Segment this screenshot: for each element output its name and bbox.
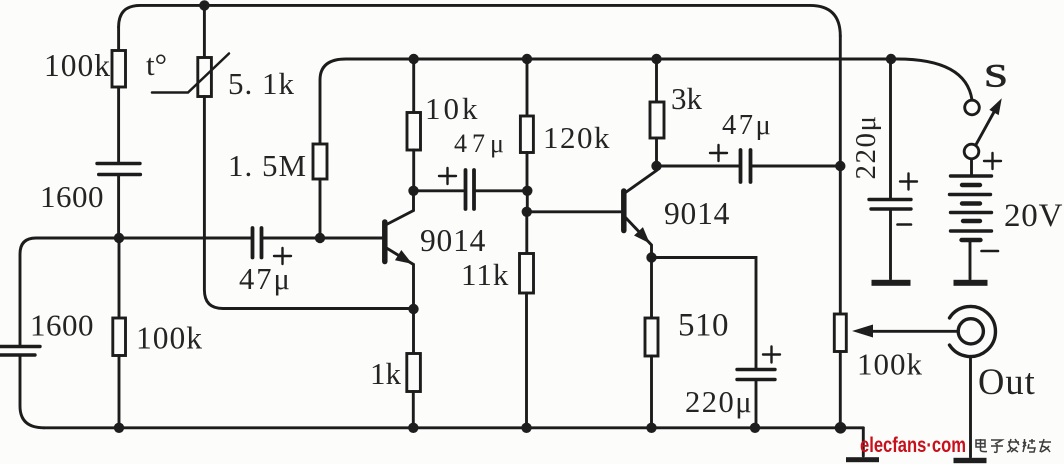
wire: R9 bottom to bottom rail xyxy=(650,356,653,428)
svg-text:elecfans·com: elecfans·com xyxy=(860,433,966,457)
node: bottom rail / 1k xyxy=(408,423,418,433)
wire: supply rail xyxy=(346,59,972,100)
wire: R7 bottom to bottom rail xyxy=(412,392,415,428)
capacitor C6 47u (output coupling) xyxy=(741,150,751,182)
wire: C4 to 120k node xyxy=(476,189,527,192)
svg-text:47μ: 47μ xyxy=(239,262,292,296)
thermistor Rt 5.1k xyxy=(152,5,229,96)
wire: 1.5M top lead to supply rail xyxy=(320,59,346,144)
switch S terminal (upper) xyxy=(965,100,980,115)
wire: output line Q2 collector to right vertical xyxy=(657,165,740,168)
node: bottom rail / R2 xyxy=(114,423,124,433)
wire: thermistor bottom down and over to Q1 emitter node xyxy=(204,97,413,309)
resistor R6 11k xyxy=(520,254,534,294)
wire: 120k top lead xyxy=(526,59,529,116)
wire: emitter bypass branch over and down xyxy=(652,258,757,369)
wire: 11k top lead xyxy=(525,212,528,254)
wire: C2 bottom to bottom rail xyxy=(20,356,44,428)
wire: C3 to Q1 base xyxy=(263,237,382,240)
wire: Out ground lead xyxy=(969,356,972,457)
wire: base line to Q2 xyxy=(527,210,622,213)
svg-text:510: 510 xyxy=(678,308,729,344)
node: bottom rail / C5 xyxy=(750,423,760,433)
svg-text:10k: 10k xyxy=(425,91,481,126)
node: supply/220u junction xyxy=(886,54,896,64)
svg-text:t°: t° xyxy=(146,47,167,82)
wire: switch to battery xyxy=(970,159,973,175)
wire: R3 bottom to node B xyxy=(319,179,322,233)
svg-text:100k: 100k xyxy=(44,48,111,83)
wire: R5 bottom to junction xyxy=(526,153,529,191)
label plus (C5) xyxy=(763,347,780,363)
resistor R2 100k (lower left) xyxy=(113,318,126,356)
wire: base line node A to C3 xyxy=(119,237,251,240)
node: Q1 collector junction xyxy=(408,186,418,196)
resistor R1 100k (top left) xyxy=(112,51,126,88)
capacitor C2 1600 (lower left) xyxy=(0,347,40,356)
wire: right vertical from top rail to pot xyxy=(839,36,842,314)
switch S blade xyxy=(976,112,995,146)
label plus (battery) xyxy=(984,153,1001,169)
node: bottom rail / 510 xyxy=(646,423,656,433)
svg-text:S: S xyxy=(984,58,1008,94)
watermark: chinese characters xyxy=(976,439,1051,452)
label minus (battery) xyxy=(982,250,999,253)
wire: 220u filter top lead xyxy=(889,59,892,198)
capacitor C4 47u (interstage) xyxy=(466,170,475,209)
node: supply/3k junction xyxy=(651,54,661,64)
resistor R7 1k xyxy=(407,354,421,392)
wire: C7 bottom lead xyxy=(889,211,892,280)
wire: pot wiper arrow from Out connector xyxy=(872,330,957,333)
label plus (C6) xyxy=(710,145,727,161)
wire: R4 bottom to Q1 collector node xyxy=(412,150,415,191)
node: Q1 emitter junction xyxy=(408,304,418,314)
arrowhead: switch blade xyxy=(990,100,1001,115)
resistor R3 1.5M xyxy=(313,144,327,179)
svg-text:100k: 100k xyxy=(136,321,203,356)
node: supply/120k junction xyxy=(522,54,532,64)
capacitor C5 220u (emitter bypass) xyxy=(737,370,775,380)
potentiometer RP 100k xyxy=(834,314,846,352)
wire: emitter node to 1k xyxy=(412,309,415,354)
wire: C6 to output node xyxy=(752,165,840,168)
svg-text:220μ: 220μ xyxy=(850,114,882,179)
wire: node A down to R2 xyxy=(118,238,121,318)
svg-text:47μ: 47μ xyxy=(722,110,773,141)
svg-text:11k: 11k xyxy=(461,257,509,292)
svg-text:5. 1k: 5. 1k xyxy=(228,66,295,101)
svg-text:Out: Out xyxy=(978,361,1036,402)
wire: R8 bottom to Q2 collector node xyxy=(655,138,658,166)
label minus (C7) xyxy=(898,223,912,226)
transistor Q2 9014 xyxy=(624,166,657,258)
svg-text:47μ: 47μ xyxy=(454,129,509,158)
resistor R4 10k xyxy=(407,113,421,151)
wire: 120k node down to base node of Q2 xyxy=(526,191,529,212)
wire: 3k top lead xyxy=(655,59,658,102)
wire: collector node to C4 xyxy=(414,189,464,192)
node: Q2 base junction xyxy=(522,207,532,217)
svg-text:1k: 1k xyxy=(370,356,402,391)
terminal bar (battery) xyxy=(954,280,988,286)
node: top rail / thermistor junction xyxy=(199,0,209,10)
svg-text:1. 5M: 1. 5M xyxy=(228,148,307,183)
capacitor C1 1600 (upper) xyxy=(97,164,140,175)
svg-text:120k: 120k xyxy=(543,120,611,155)
wire: emitter node to 510 xyxy=(650,258,653,319)
resistor R8 3k xyxy=(650,102,664,138)
svg-text:220μ: 220μ xyxy=(685,385,753,419)
switch S terminal (lower) xyxy=(964,144,979,159)
node B: 1.5M / base junction xyxy=(315,233,325,243)
label plus (C7) xyxy=(900,174,917,190)
svg-text:3k: 3k xyxy=(671,81,703,116)
ground bar (main) xyxy=(846,457,879,462)
wire: 10k top lead xyxy=(412,59,415,113)
svg-text:1600: 1600 xyxy=(30,308,94,343)
svg-text:9014: 9014 xyxy=(664,196,730,231)
node: output line / right vertical junction xyxy=(835,161,845,171)
wire: pot bottom to bottom rail xyxy=(839,352,842,428)
transistor Q1 9014 xyxy=(385,191,414,309)
wire: 100k top lead xyxy=(117,27,120,51)
node: pot / bottom rail junction xyxy=(835,422,847,434)
wire: battery bottom lead xyxy=(969,242,972,279)
wire: top feedback rail xyxy=(119,5,841,36)
battery BT 20V xyxy=(950,176,992,240)
ground bar (Out) xyxy=(954,458,987,463)
wire: node A left loop down to C2 xyxy=(20,238,119,345)
svg-text:9014: 9014 xyxy=(420,223,486,258)
label plus (C4) xyxy=(439,168,456,184)
wire: ground stub xyxy=(862,428,865,456)
svg-text:1600: 1600 xyxy=(40,179,104,214)
node: bottom rail / 11k xyxy=(521,423,531,433)
node A: input network junction xyxy=(114,233,124,243)
arrowhead: wiper xyxy=(854,325,873,337)
svg-text:20V: 20V xyxy=(1004,198,1063,234)
capacitor C7 220u (supply filter) xyxy=(869,200,911,210)
resistor R5 120k xyxy=(520,116,533,153)
node: Q2 emitter junction xyxy=(646,252,656,262)
connector J1 Out (outer arc) xyxy=(950,307,996,357)
resistor R9 510 xyxy=(645,318,658,356)
terminal bar (C7) xyxy=(872,280,911,286)
node: Q2 collector junction xyxy=(651,161,661,171)
wire: bottom rail xyxy=(44,426,863,429)
wire: R1 bottom to C1 xyxy=(117,87,120,162)
capacitor C3 47u (input coupling) xyxy=(253,228,262,258)
wire: C1 bottom to node A xyxy=(117,176,120,237)
svg-text:100k: 100k xyxy=(857,347,923,382)
node: 120k bottom junction xyxy=(522,186,532,196)
wire: C5 bottom to bottom rail xyxy=(755,381,758,428)
connector J1 Out (inner circle) xyxy=(958,319,983,344)
wire: R2 bottom to bottom rail xyxy=(118,356,121,428)
node: supply/10k junction xyxy=(409,54,419,64)
wire: R6 bottom to bottom rail xyxy=(525,293,528,428)
label plus (C3) xyxy=(274,248,291,264)
